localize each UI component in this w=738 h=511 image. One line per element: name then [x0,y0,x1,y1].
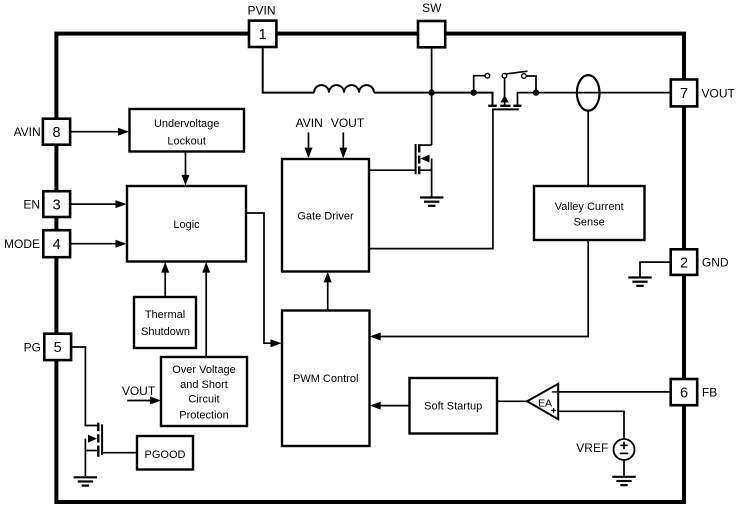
wire VREF to ground [623,460,625,476]
wire SW pin down to node and NMOS drain [431,47,433,145]
svg-text:2: 2 [680,255,688,271]
pin 6 FB [671,379,718,405]
svg-text:VOUT: VOUT [702,86,736,100]
wire MODE pin to Logic [70,243,116,245]
svg-text:Shutdown: Shutdown [141,326,190,338]
wire Valley Current Sense to PWM Control [372,240,588,337]
pin SW [418,1,445,48]
node PMOS left junction [471,89,477,95]
svg-text:and Short: and Short [180,379,228,391]
block PWM Control [282,311,370,447]
svg-text:4: 4 [53,237,61,253]
wire PG pin to Q3 drain [71,347,98,426]
switch S1 riser and contact [474,76,486,93]
wire GND pin to ground [640,262,671,276]
wire UVLO to Logic [185,152,187,177]
svg-text:FB: FB [702,386,717,400]
svg-text:5: 5 [54,340,62,356]
IC outer boundary [56,34,684,502]
wire AVIN arrow into Gate Driver [308,132,310,149]
wire Q1 gate to Gate Driver [369,109,493,248]
transistor Q1 high-side PMOS body [488,78,521,109]
wire Q3 gate to PGOOD block [102,452,137,454]
svg-text:Thermal: Thermal [145,309,185,321]
svg-text:VREF: VREF [576,441,608,455]
svg-text:1: 1 [259,27,267,43]
wire EA non-inverting input to VREF [558,411,624,439]
svg-text:Gate Driver: Gate Driver [297,210,354,222]
svg-text:PVIN: PVIN [247,4,275,18]
svg-text:Valley Current: Valley Current [555,201,624,213]
wire FB pin to EA inverting input [558,391,671,393]
svg-text:6: 6 [680,385,688,401]
ground below VREF [612,477,635,485]
svg-text:Sense: Sense [574,216,605,228]
node PMOS right junction [533,89,539,95]
wire VOUT arrow into Gate Driver [342,132,344,149]
block Thermal Shutdown [134,297,196,348]
block PGOOD [137,436,193,470]
transistor Q2 low-side NMOS [416,144,432,197]
svg-text:SW: SW [422,1,442,15]
svg-text:VOUT: VOUT [331,116,365,130]
ground below Q2 [420,198,443,206]
svg-text:Undervoltage: Undervoltage [154,118,219,130]
inductor L1 [314,85,374,92]
wire sense loop to Valley Current Sense [587,111,589,186]
svg-text:AVIN: AVIN [296,116,323,130]
op-amp EA error amplifier [527,384,558,420]
svg-text:Soft Startup: Soft Startup [424,400,482,412]
node SW junction [428,89,434,95]
current sense loop [577,75,600,111]
svg-text:EN: EN [23,198,40,212]
block Logic [127,186,246,262]
wire EA output to Soft Startup [497,400,527,402]
pin 3 EN [23,191,70,217]
svg-text:3: 3 [53,197,61,213]
svg-text:EA: EA [538,397,552,409]
pin 1 PVIN [247,4,276,47]
pin 8 AVIN [14,119,71,145]
wire Q1 drain post to VOUT [518,93,671,106]
wire Gate Driver to Q2 gate [369,169,416,171]
wire AVIN pin to UVLO [70,131,119,133]
wire VOUT arrow to protection block [127,400,151,402]
svg-text:PG: PG [24,340,41,354]
ground below Q3 [74,477,97,485]
wire inductor to SW node and PMOS source post [374,93,493,105]
svg-text:Circuit: Circuit [188,394,219,406]
svg-text:Lockout: Lockout [167,135,206,147]
pin 7 VOUT [671,80,736,107]
block Valley Current Sense [534,186,645,240]
block Over Voltage and Short Circuit Protection [161,357,247,426]
voltage source VREF [576,439,634,460]
svg-text:VOUT: VOUT [122,384,156,398]
svg-text:GND: GND [702,256,729,270]
svg-text:PWM Control: PWM Control [293,373,358,385]
block Soft Startup [410,378,498,434]
svg-text:AVIN: AVIN [14,125,41,139]
wire EN pin to Logic [70,203,116,205]
wire PWM Control to Gate Driver [327,281,329,311]
block Gate Driver [282,159,369,272]
svg-text:Over Voltage: Over Voltage [172,364,236,376]
wire PVIN to inductor [263,47,314,93]
svg-text:8: 8 [52,125,60,141]
pin 2 GND [671,249,729,275]
wire Thermal Shutdown to Logic [164,272,166,298]
transistor Q3 PGOOD pull-down NMOS [85,423,102,477]
wire Over Voltage Protection to Logic [205,272,207,358]
wire switch S2 right contact to output node [526,76,536,93]
wire Soft Startup to PWM Control [372,405,410,407]
svg-text:Protection: Protection [179,410,229,422]
ground at GND pin [628,278,651,286]
svg-text:PGOOD: PGOOD [145,449,186,461]
pin 5 PG [24,334,71,360]
svg-text:7: 7 [680,86,688,102]
wire Logic to PWM Control [246,213,272,343]
block U-UVLO Undervoltage Lockout [130,109,245,152]
switch S2 contacts and blade [502,73,507,78]
pin 4 MODE [4,230,70,257]
svg-text:MODE: MODE [4,237,40,251]
svg-text:Logic: Logic [173,219,200,231]
